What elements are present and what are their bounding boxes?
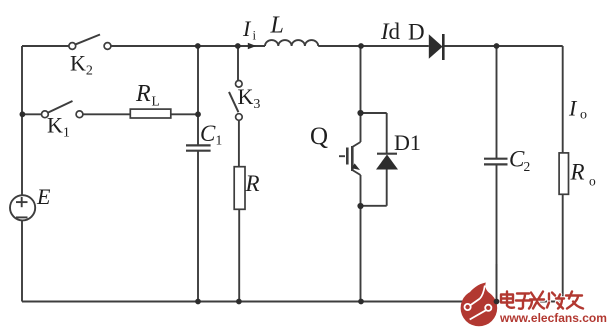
svg-text:www.elecfans.com: www.elecfans.com <box>499 311 607 325</box>
svg-text:1: 1 <box>216 133 223 148</box>
svg-text:R: R <box>570 160 585 185</box>
svg-text:R: R <box>245 171 260 196</box>
svg-text:E: E <box>36 184 51 209</box>
svg-text:D1: D1 <box>394 130 421 155</box>
svg-text:i: i <box>253 28 257 43</box>
svg-text:d: d <box>389 19 401 44</box>
svg-text:L: L <box>152 94 160 109</box>
svg-text:o: o <box>589 174 596 189</box>
svg-text:R: R <box>135 81 151 107</box>
svg-text:2: 2 <box>524 159 531 174</box>
svg-text:L: L <box>270 13 284 39</box>
svg-text:C: C <box>200 121 216 146</box>
svg-text:D: D <box>408 20 425 45</box>
svg-text:o: o <box>580 108 587 123</box>
svg-text:Q: Q <box>310 123 328 150</box>
